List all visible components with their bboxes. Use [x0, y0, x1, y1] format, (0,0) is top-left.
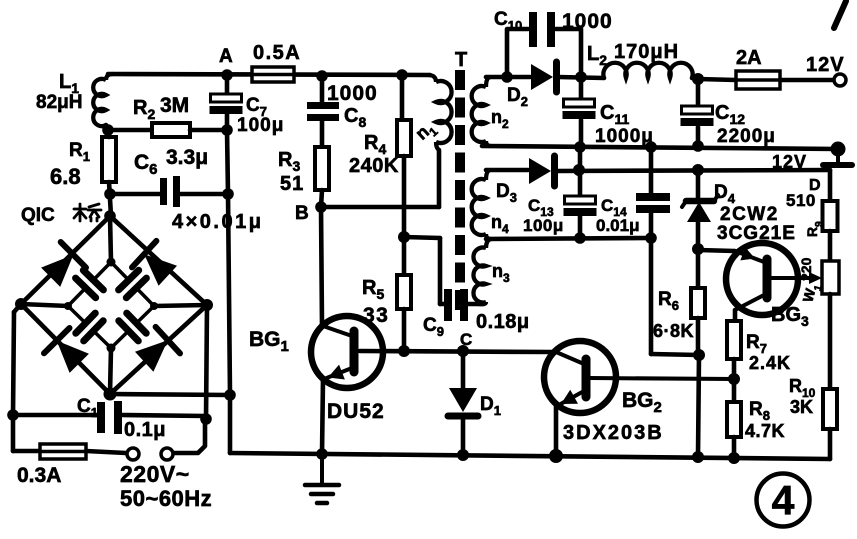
wire bridge-right corner down: [206, 305, 207, 420]
svg-text:1000: 1000: [562, 10, 613, 33]
svg-text:2CW2: 2CW2: [720, 204, 779, 225]
svg-text:220: 220: [798, 257, 814, 281]
wire AC terminal corner: [174, 420, 205, 453]
label C13: [528, 196, 554, 219]
transistor BG1 DU52: [311, 316, 404, 388]
wire R2 node down to C6 node: [227, 130, 228, 194]
label n4: [491, 212, 509, 236]
label L2 170uH: [587, 41, 679, 68]
svg-text:1000μ: 1000μ: [595, 126, 654, 147]
svg-text:0.5A: 0.5A: [253, 42, 301, 64]
node dot inner left: [64, 302, 72, 310]
wire bridge-bottom to ground rail: [110, 394, 230, 395]
label 2.4K: [749, 353, 791, 373]
svg-text:82μH: 82μH: [36, 92, 82, 113]
label 100u: [237, 115, 284, 136]
wire R3 to node B: [321, 190, 322, 207]
svg-text:T: T: [455, 49, 467, 71]
svg-text:4.7K: 4.7K: [745, 421, 785, 441]
wire BG2 emitter down: [554, 406, 559, 456]
wire R9 to W1: [828, 231, 833, 261]
resistor R1 6.8: [102, 130, 116, 182]
label C7: [246, 95, 267, 119]
svg-text:240K: 240K: [349, 155, 399, 177]
node dot BG2 base / R7 / R8: [728, 373, 740, 385]
terminal 12V output: [834, 74, 846, 86]
wire C14 column: [649, 147, 654, 193]
label 12V top: [806, 54, 845, 76]
wire D2 to L2: [558, 77, 604, 78]
wire inner-right stub: [154, 305, 207, 306]
svg-text:170μH: 170μH: [614, 41, 679, 63]
svg-text:0.1μ: 0.1μ: [124, 419, 166, 441]
svg-text:3K: 3K: [790, 397, 813, 417]
wire rail3 corner down: [649, 238, 654, 354]
svg-text:DU52: DU52: [327, 400, 385, 423]
capacitor C13 100u electrolytic: [564, 196, 597, 238]
fuse 2A: [698, 71, 835, 89]
svg-text:2A: 2A: [736, 47, 762, 69]
label C11: [600, 102, 629, 127]
node dot R6 bottom: [693, 349, 705, 361]
label 0.1u: [124, 419, 166, 441]
node dot BG2 emitter ground: [549, 449, 563, 463]
wire output return rail: [482, 146, 838, 149]
label C12: [715, 102, 745, 127]
capacitor C1 0.1u: [97, 401, 122, 434]
svg-text:3.3μ: 3.3μ: [166, 146, 208, 169]
label 3DX203B: [563, 422, 664, 444]
node dot L1 bottom / R2 left / R1 top: [102, 124, 114, 136]
node dot C10 left leg: [501, 71, 513, 83]
label 220V~: [120, 461, 190, 487]
wire top to C8: [320, 76, 325, 102]
bridge cap 0.01u bottom-left: [68, 306, 111, 348]
resistor R4 240K: [397, 75, 411, 237]
corner mark top right: [834, 1, 846, 28]
wire bridge side top-right: [110, 216, 207, 305]
wire C8 to R3: [320, 121, 325, 147]
bridge cap 0.01u top-left: [68, 262, 111, 306]
wire inner-bottom stub: [110, 348, 111, 394]
label D: [809, 177, 821, 194]
wire BG1 base rail: [360, 351, 552, 352]
diode D1: [448, 388, 478, 455]
wire inner-left stub: [21, 304, 68, 306]
label C10 1000: [494, 9, 613, 33]
bridge diode bottom-right: [135, 327, 180, 372]
wire inner-top stub: [110, 216, 111, 262]
node dot R5 bottom at BG1 base: [398, 345, 410, 357]
capacitor C6 3.3u: [110, 176, 228, 207]
node dot bridge top: [104, 210, 116, 222]
ground symbol: [305, 455, 339, 503]
node junction dot at C8 top: [316, 70, 328, 82]
wire n1 bottom down to B wire: [437, 150, 442, 207]
wire D4 node to BG3 emitter: [698, 250, 735, 251]
label QIC bridge: [21, 204, 101, 226]
node dot R8 bottom: [728, 452, 740, 464]
wire C1 rail left: [13, 413, 98, 418]
wire R1 bottom to bridge top: [109, 182, 111, 216]
wire rail2 corner down to R9: [828, 170, 833, 201]
transistor BG3 3CG21E: [726, 243, 810, 315]
node dot R2 right: [221, 124, 233, 136]
wire rail3 n4 bottom: [486, 238, 651, 239]
label C1: [77, 396, 98, 420]
resistor R6 6.8K: [691, 249, 705, 355]
wire ground rail: [230, 453, 830, 459]
svg-text:0.01μ: 0.01μ: [596, 216, 640, 235]
wire n4 top to D3: [486, 168, 528, 173]
node dot bridge bottom: [104, 388, 117, 401]
svg-text:6.8: 6.8: [50, 164, 81, 189]
label n3: [492, 261, 510, 285]
wire R6 bottom to ground rail: [698, 355, 699, 456]
label n2: [491, 107, 509, 131]
label C9: [423, 315, 444, 339]
label T: [455, 49, 467, 71]
label R5 33: [362, 277, 389, 327]
wire bridge side bottom-left: [21, 304, 110, 394]
svg-text:3M: 3M: [160, 94, 189, 117]
svg-text:B: B: [295, 203, 309, 224]
svg-text:510: 510: [786, 191, 816, 210]
node dot D1 bottom: [457, 449, 469, 461]
node A label: [219, 46, 233, 67]
terminal dot 12V return: [831, 142, 846, 157]
label 2CW2: [720, 204, 779, 225]
label 3K: [790, 397, 813, 417]
node dot C13 bottom: [574, 232, 586, 244]
resistor R10 3K: [823, 389, 837, 429]
terminal 220V left: [127, 448, 139, 460]
capacitor C10 1000: [507, 12, 581, 77]
label D3: [496, 181, 517, 205]
node dot C1 rail left: [7, 409, 19, 421]
label 12V mid: [772, 152, 807, 172]
capacitor C9 0.18u: [444, 289, 478, 321]
wire R4R5 node to C9: [404, 237, 444, 304]
svg-text:12V: 12V: [806, 54, 845, 76]
label 2200u: [717, 126, 776, 147]
label B: [295, 203, 309, 224]
label D2: [507, 85, 528, 109]
node dot rail1 at C13 column: [574, 141, 586, 153]
resistor R8 4.7K: [727, 379, 741, 457]
label 510: [786, 191, 816, 210]
label 0.3A: [17, 464, 61, 487]
label 6.8K: [653, 321, 694, 341]
winding n4: [472, 170, 491, 239]
bridge diode bottom-left: [44, 328, 89, 373]
wire rail3 to R6 bottom node: [651, 354, 699, 355]
label R1: [69, 140, 90, 164]
zener diode D4 2CW2: [682, 170, 718, 249]
svg-text:4×0.01μ: 4×0.01μ: [172, 211, 263, 233]
transformer T core: [455, 70, 465, 310]
label 1000u: [595, 126, 654, 147]
inductor L1 82uH: [93, 74, 113, 130]
svg-text:0.18μ: 0.18μ: [476, 311, 530, 333]
wire node C down to D1: [461, 351, 466, 388]
svg-text:12V: 12V: [772, 152, 807, 172]
label L1: [59, 71, 79, 96]
label D4: [714, 182, 736, 206]
label BG2: [622, 389, 662, 416]
node dot D3 cathode: [573, 164, 585, 176]
capacitor C14 0.01u: [636, 193, 670, 238]
wire BG3 base arrow to W1: [809, 272, 822, 284]
terminal chassis symbol: [823, 149, 852, 165]
node dot bridge right: [201, 299, 213, 311]
label 1000 C8: [327, 82, 378, 130]
wire BG1 emitter down: [322, 379, 323, 454]
winding n3: [473, 239, 491, 304]
svg-text:2200μ: 2200μ: [717, 126, 776, 147]
wire C1 rail right: [122, 415, 206, 416]
label R7: [746, 332, 767, 356]
capacitor C8 1000: [307, 102, 339, 121]
wire W1 to R10: [828, 294, 833, 389]
node dot C11 top: [575, 71, 587, 83]
diode D2: [531, 62, 557, 92]
node dot C6 left on R1 line: [104, 188, 116, 200]
label R3 51: [278, 149, 304, 195]
resistor R2 3M: [108, 123, 227, 137]
label R9 rotated: [804, 221, 825, 237]
svg-text:50~60Hz: 50~60Hz: [120, 486, 212, 511]
label 3CG21E: [717, 223, 796, 244]
label DU52: [327, 400, 385, 423]
bridge diode top-left: [41, 242, 86, 287]
node dot B: [315, 201, 327, 213]
label R6: [658, 289, 679, 313]
wire node A down to C7: [225, 75, 230, 94]
node dot C6 right: [222, 188, 234, 200]
node dot BG1 emitter at ground: [316, 448, 328, 460]
node junction dot at R4 top: [396, 69, 408, 81]
capacitor C12 2200u electrolytic: [681, 79, 714, 147]
wire C13 column: [578, 147, 583, 196]
label 4.7K: [745, 421, 785, 441]
node dot C: [457, 345, 469, 357]
label 0.18u: [476, 311, 530, 333]
svg-text:100μ: 100μ: [237, 115, 284, 136]
label node C: [460, 330, 472, 349]
svg-text:0.3A: 0.3A: [17, 464, 61, 487]
wire BG3 collector down: [733, 310, 738, 321]
figure number circled 4: [757, 474, 810, 527]
svg-text:6·8K: 6·8K: [653, 321, 694, 341]
label D1: [480, 394, 501, 418]
wire R4 bottom crossing B wire: [0, 0, 1, 1]
fuse 0.5A: [252, 42, 301, 82]
fuse 0.3A: [13, 415, 126, 459]
node dot D4 anode / BG3 emitter: [692, 243, 704, 255]
resistor R5 33: [397, 237, 411, 351]
capacitor C7 100u electrolytic: [210, 94, 243, 114]
wire node B to n1 bottom: [321, 205, 439, 210]
node dot R4/R5 junction: [398, 231, 410, 243]
transistor BG2 3DX203B: [544, 341, 734, 413]
node dot rail1 at C14 column: [645, 141, 657, 153]
label 82uH: [36, 92, 82, 113]
label 50~60Hz: [120, 486, 212, 511]
svg-text:100μ: 100μ: [523, 216, 564, 235]
svg-text:4: 4: [772, 477, 795, 523]
wire R10 bottom to ground rail: [828, 429, 833, 459]
svg-text:3DX203B: 3DX203B: [563, 422, 664, 444]
node dot AC right: [200, 413, 212, 425]
label 6.8: [50, 164, 81, 189]
diode D3: [529, 156, 555, 186]
wire bridge side top-left: [21, 216, 110, 304]
node dot D4 top: [692, 164, 704, 176]
label 100u c13: [523, 216, 564, 235]
node dot bridge left: [15, 298, 27, 310]
terminal 220V right: [161, 448, 173, 460]
label 0.01u c14: [596, 216, 640, 235]
label 220 rotated: [798, 257, 814, 281]
node dot inner top: [107, 258, 116, 267]
potentiometer W1 220: [822, 261, 839, 294]
label C6 3.3u: [134, 146, 208, 178]
wire bridge side bottom-right: [110, 305, 207, 394]
node dot C14 bottom: [645, 232, 657, 244]
svg-text:220V~: 220V~: [120, 461, 190, 487]
label R4 240K: [349, 132, 399, 177]
node dot R6 ground: [692, 451, 704, 463]
inductor L2 170uH: [603, 63, 698, 79]
node dot L2 right / C12 top: [692, 73, 704, 85]
label W1 rotated: [799, 281, 824, 305]
wire bridge-left corner down: [13, 304, 21, 415]
svg-text:QIC: QIC: [21, 205, 55, 226]
label 2A: [736, 47, 762, 69]
wire node B down to BG1 collector: [321, 207, 322, 326]
node dot inner bottom: [107, 344, 116, 353]
resistor R3 51: [315, 147, 329, 190]
label BG3: [771, 304, 809, 329]
winding n2: [472, 77, 491, 146]
wire ground rail corner down: [228, 395, 233, 453]
label R10: [789, 376, 816, 400]
node dot rail1 at C12 column: [692, 140, 704, 152]
resistor R9 510: [823, 201, 838, 231]
label R8: [749, 399, 770, 423]
label R2 3M: [133, 94, 189, 122]
label n1: [411, 117, 440, 147]
node dot ground-rail left corner: [224, 389, 236, 401]
bridge cap 0.01u bottom-right: [111, 306, 154, 348]
bridge diode top-right: [132, 241, 177, 286]
wire C6 node down to bridge-bottom node: [228, 194, 230, 395]
wire n2 top to D2: [486, 75, 530, 80]
svg-text:A: A: [219, 46, 233, 67]
wire: mains DC top rail from L1 to transformer n1: [108, 74, 430, 75]
wire C7 to R2 node: [225, 114, 230, 130]
node dot inner right: [150, 302, 158, 310]
svg-text:1000: 1000: [327, 82, 378, 105]
label BG1: [249, 328, 289, 355]
winding n1: [428, 75, 452, 150]
svg-text:2.4K: 2.4K: [749, 353, 791, 373]
wire rail2 12V: [554, 170, 830, 171]
node A junction dot: [221, 69, 233, 81]
label 4x0.01u: [172, 211, 263, 233]
label C14: [601, 196, 627, 219]
capacitor C11 1000u electrolytic: [563, 77, 596, 146]
bridge cap 0.01u top-right: [111, 262, 154, 306]
svg-text:51: 51: [280, 173, 304, 195]
resistor R7 2.4K: [727, 321, 741, 379]
